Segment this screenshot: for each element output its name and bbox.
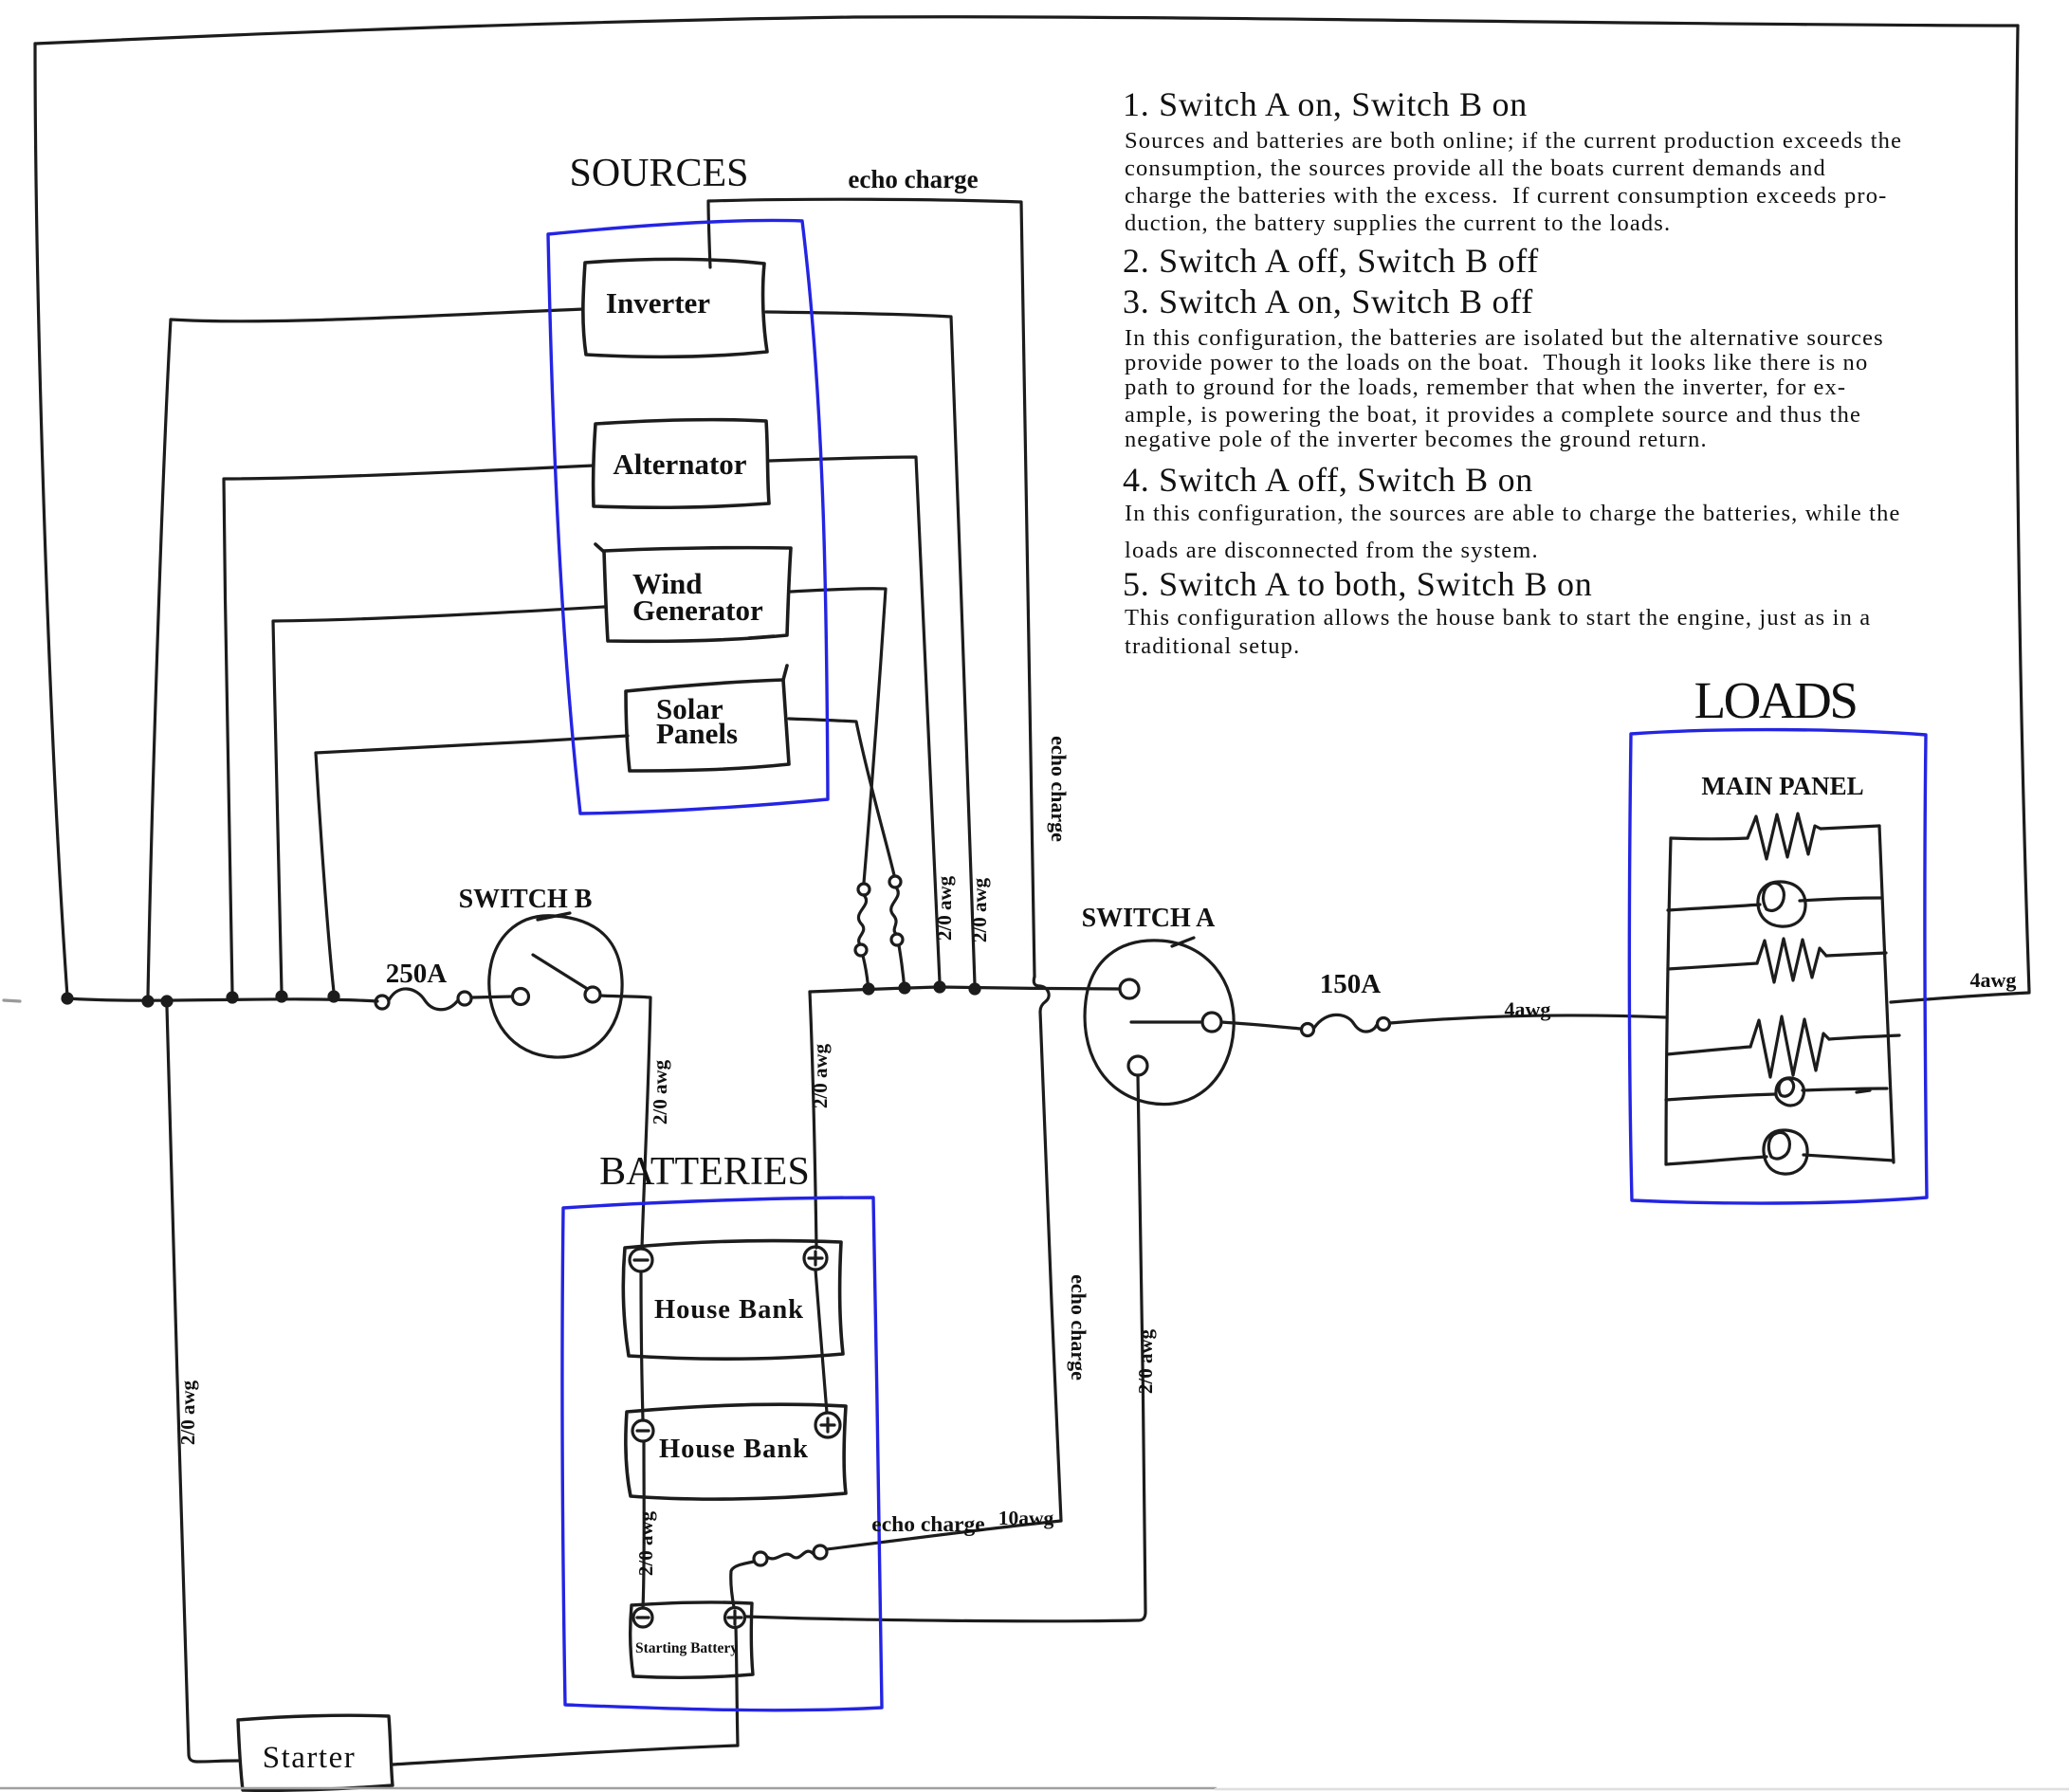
component main panel left rail: [1666, 838, 1671, 1164]
blue box SOURCES: [548, 221, 828, 814]
wire house bank1 plus to house bank2 plus: [815, 1270, 827, 1413]
wire SWITCH B to house bank minus: [600, 996, 650, 1248]
component Starting Battery minus terminal: [633, 1608, 652, 1627]
svg-text:echo charge: echo charge: [871, 1512, 984, 1537]
svg-text:2/0 awg: 2/0 awg: [809, 1043, 832, 1108]
switch SWITCH A lever: [1131, 1020, 1200, 1023]
wire ground-loop outer border: [35, 17, 2029, 997]
component Wind Generator box: [595, 544, 791, 641]
switch SWITCH A body: [1085, 938, 1234, 1105]
component House Bank 2 plus terminal: [815, 1413, 840, 1437]
svg-text:House Bank: House Bank: [654, 1295, 804, 1325]
wire house bank positive to bus: [810, 992, 816, 1248]
component House Bank 2 minus terminal: [632, 1420, 653, 1441]
svg-text:path to ground for the loads,: path to ground for the loads, remember t…: [1125, 375, 1846, 400]
svg-text:In this configuration, the sou: In this configuration, the sources are a…: [1125, 501, 1901, 526]
wire SWITCH A bottom to starting battery positive: [746, 1075, 1145, 1621]
svg-text:echo charge: echo charge: [1067, 1274, 1090, 1381]
svg-text:Generator: Generator: [632, 594, 763, 627]
svg-text:2/0 awg: 2/0 awg: [933, 875, 956, 941]
svg-text:consumption, the sources provi: consumption, the sources provide all the…: [1125, 155, 1826, 181]
svg-text:Panels: Panels: [656, 717, 738, 750]
switch SWITCH B body: [489, 913, 622, 1057]
component Starting Battery box: [631, 1602, 753, 1677]
svg-text:2/0 awg: 2/0 awg: [634, 1510, 657, 1576]
svg-text:charge the batteries with the: charge the batteries with the excess. If…: [1125, 183, 1887, 209]
switch SWITCH B left terminal: [513, 989, 529, 1005]
wire house bank1 minus to house bank2 minus: [641, 1271, 643, 1420]
wire 150A fuse to main panel 4awg: [1390, 1015, 1667, 1023]
svg-text:traditional setup.: traditional setup.: [1125, 633, 1300, 659]
svg-text:1. Switch A on, Switch B on: 1. Switch A on, Switch B on: [1123, 85, 1528, 123]
node junction bus-inverter-positive: [970, 984, 980, 994]
wire negative bus (left): [67, 998, 377, 1001]
wire inverter positive to bus: [766, 312, 975, 984]
wire SWITCH A right to 150A fuse: [1221, 1022, 1301, 1029]
svg-text:5. Switch A to both, Switch B: 5. Switch A to both, Switch B on: [1123, 565, 1592, 603]
fuse 150A: [1302, 1015, 1390, 1035]
lamp main panel branch 6: [1666, 1130, 1894, 1174]
svg-text:250A: 250A: [386, 959, 448, 989]
wire house bank2 minus to starting battery minus: [643, 1441, 644, 1608]
switch SWITCH B right terminal: [585, 987, 600, 1002]
component House Bank 1 plus terminal: [804, 1247, 827, 1270]
svg-text:LOADS: LOADS: [1694, 671, 1857, 729]
svg-text:provide power to the loads on: provide power to the loads on the boat. …: [1125, 350, 1868, 375]
resistor main panel branch 4: [1667, 1016, 1899, 1077]
component Starting Battery plus terminal: [725, 1608, 745, 1628]
component House Bank 2 box: [626, 1404, 846, 1499]
svg-text:House Bank: House Bank: [659, 1435, 809, 1464]
node junction bus-inverter-return: [143, 997, 153, 1006]
svg-text:2/0 awg: 2/0 awg: [176, 1380, 199, 1445]
wire solar positive to fuse: [789, 719, 894, 875]
wire echo charge from inverter top: [708, 199, 1061, 1549]
wire wind generator positive to fuse: [791, 589, 886, 883]
component House Bank 1 box: [623, 1241, 843, 1359]
svg-text:BATTERIES: BATTERIES: [599, 1150, 810, 1194]
svg-text:This configuration allows the: This configuration allows the house bank…: [1125, 605, 1871, 631]
faint bottom scan line: [0, 1787, 1216, 1790]
fuse 250A: [375, 989, 512, 1010]
component Solar Panels box: [626, 666, 789, 771]
wire negative bus left stub: [4, 1000, 20, 1001]
node junction bus-windgen-return: [277, 992, 286, 1001]
fuse wind generator branch: [855, 884, 870, 992]
node junction bus-alternator-positive: [935, 982, 944, 992]
component Inverter box: [583, 259, 767, 357]
resistor main panel branch 3: [1668, 939, 1886, 982]
svg-text:SWITCH B: SWITCH B: [459, 885, 593, 914]
svg-text:In this configuration, the bat: In this configuration, the batteries are…: [1125, 325, 1884, 351]
component Alternator box: [594, 420, 769, 508]
svg-text:SWITCH A: SWITCH A: [1082, 904, 1217, 933]
component Starter box: [238, 1715, 393, 1790]
blue box BATTERIES: [562, 1198, 882, 1710]
blue box LOADS MAIN PANEL: [1629, 730, 1927, 1203]
wire starting battery plus down to starter: [736, 1627, 738, 1746]
switch SWITCH B lever: [533, 955, 586, 988]
svg-text:Inverter: Inverter: [606, 286, 710, 320]
node junction bus-starter-lead: [162, 997, 172, 1006]
wire solar return: [316, 736, 628, 992]
svg-text:MAIN PANEL: MAIN PANEL: [1701, 772, 1863, 800]
svg-text:2/0 awg: 2/0 awg: [1134, 1328, 1157, 1394]
wire alternator return: [224, 466, 594, 993]
svg-text:echo charge: echo charge: [848, 165, 978, 193]
svg-text:4awg: 4awg: [1505, 997, 1551, 1021]
lamp main panel branch 2: [1668, 882, 1882, 926]
svg-text:4. Switch A off, Switch B on: 4. Switch A off, Switch B on: [1123, 461, 1533, 499]
svg-text:Sources and batteries are both: Sources and batteries are both online; i…: [1125, 128, 1902, 154]
svg-text:negative pole of the inverter: negative pole of the inverter becomes th…: [1125, 427, 1708, 452]
wire main panel output 4awg to border: [1891, 993, 2029, 1002]
svg-text:150A: 150A: [1320, 969, 1382, 999]
switch SWITCH A bottom terminal: [1128, 1056, 1147, 1075]
svg-text:3. Switch A on, Switch B off: 3. Switch A on, Switch B off: [1123, 283, 1533, 320]
node junction bus-solar-return: [329, 992, 339, 1001]
wire starter to starting battery bottom: [393, 1746, 738, 1765]
svg-text:loads are disconnected from th: loads are disconnected from the system.: [1125, 538, 1539, 563]
wire alternator positive to bus: [769, 457, 940, 982]
wire bus to starter ground lead: [167, 1007, 238, 1762]
svg-text:Starting Battery: Starting Battery: [635, 1640, 738, 1656]
svg-text:SOURCES: SOURCES: [569, 152, 748, 195]
wire wind generator return: [273, 607, 604, 992]
svg-text:2/0 awg: 2/0 awg: [649, 1059, 671, 1125]
node junction bus-outer-border: [63, 994, 72, 1003]
svg-text:4awg: 4awg: [1970, 968, 2017, 992]
svg-text:10awg: 10awg: [998, 1507, 1054, 1529]
svg-text:Alternator: Alternator: [613, 448, 746, 481]
svg-text:Starter: Starter: [263, 1741, 356, 1775]
svg-text:2. Switch A off, Switch B off: 2. Switch A off, Switch B off: [1123, 242, 1539, 280]
component main panel right rail: [1879, 826, 1894, 1162]
svg-text:2/0 awg: 2/0 awg: [968, 877, 991, 942]
component House Bank 1 minus terminal: [630, 1249, 652, 1271]
svg-text:ample, is powering the boat, i: ample, is powering the boat, it provides…: [1125, 402, 1861, 428]
note configurations text: [1123, 85, 1902, 659]
node junction bus-alternator-return: [228, 993, 237, 1002]
node junction bus-solar-fuse: [900, 983, 909, 993]
wire inverter return: [148, 309, 583, 997]
lamp main panel branch 5: [1666, 1078, 1887, 1106]
switch SWITCH A left terminal: [1120, 979, 1139, 998]
svg-text:duction, the battery supplies: duction, the battery supplies the curren…: [1125, 210, 1671, 236]
node junction bus-windgen-fuse: [864, 984, 873, 994]
svg-text:echo charge: echo charge: [1047, 736, 1071, 842]
wire positive bus (right): [810, 987, 1120, 992]
resistor main panel branch 1: [1671, 814, 1879, 859]
fuse solar branch: [889, 876, 905, 991]
switch SWITCH A right terminal: [1202, 1013, 1221, 1032]
fuse echo charge 10awg: [731, 1545, 827, 1607]
